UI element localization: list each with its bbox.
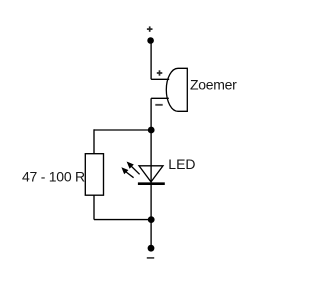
- wire bottom rail to junction B: [94, 219, 151, 221]
- LED light emission arrow 1: [127, 162, 140, 175]
- wire resistor bottom down: [93, 195, 95, 219]
- node bottom terminal dot: [148, 245, 155, 252]
- wire buzzer minus lead: [151, 97, 169, 99]
- wire buzzer plus lead: [151, 78, 169, 80]
- LED D1 triangle (anode): [139, 166, 163, 182]
- buzzer minus pin label: [155, 104, 162, 106]
- wire top rail junction A to resistor branch: [94, 129, 151, 131]
- buzzer BZ1 (Zoemer) body: [166, 68, 187, 111]
- svg-text:Zoemer: Zoemer: [190, 77, 237, 93]
- node junction B (bottom of parallel pair): [148, 216, 155, 223]
- buzzer plus pin label: [157, 70, 163, 75]
- wire LED branch junction A to junction B: [150, 130, 152, 220]
- wire top terminal to buzzer plus lead: [150, 41, 152, 80]
- svg-text:LED: LED: [168, 156, 195, 172]
- node junction A (top of parallel pair): [148, 127, 155, 134]
- wire junction B to bottom terminal: [150, 220, 152, 248]
- node - label (bottom supply minus): [147, 257, 154, 259]
- node top terminal dot: [147, 37, 154, 44]
- wire resistor branch down to resistor top: [93, 129, 95, 153]
- LED light emission arrow 2: [121, 167, 133, 178]
- resistor R1 body: [85, 154, 103, 196]
- node + label (top supply plus): [147, 26, 153, 31]
- wire buzzer minus lead down to junction: [150, 98, 152, 130]
- svg-text:47 - 100 R: 47 - 100 R: [22, 168, 85, 184]
- LED D1 cathode bar: [138, 182, 165, 185]
